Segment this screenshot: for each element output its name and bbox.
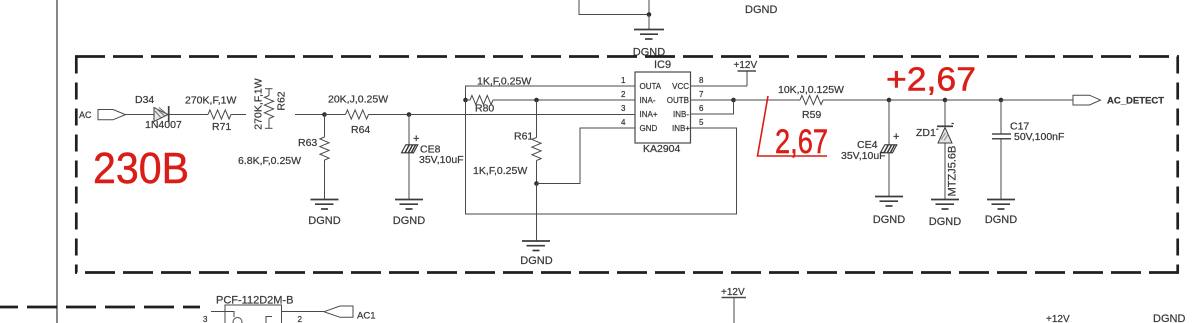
wire R59 to CE4 node — [823, 99, 889, 101]
sheet border vertical line — [56, 0, 58, 323]
ground DGND under C17 — [987, 200, 1015, 210]
svg-text:MTZJ5.6B: MTZJ5.6B — [947, 146, 959, 197]
wire CE4 node to ZD1 node — [889, 99, 945, 101]
svg-text:DGND: DGND — [985, 214, 1017, 226]
svg-text:R63: R63 — [298, 137, 317, 149]
relay contact fragment — [266, 317, 272, 323]
wire D34 to R71 — [169, 114, 208, 116]
svg-text:35V,10uF: 35V,10uF — [419, 154, 464, 166]
wire R71 to R62 area — [231, 114, 246, 116]
wire C17 node to AC_DETECT port — [1001, 99, 1073, 101]
svg-text:R80: R80 — [475, 103, 494, 115]
svg-text:230В: 230В — [93, 144, 189, 193]
svg-text:2: 2 — [621, 90, 626, 99]
svg-text:INB-: INB- — [673, 110, 689, 119]
wire R64 to CE8 node — [369, 114, 410, 116]
wire R62 area to node — [295, 114, 325, 116]
svg-text:DGND: DGND — [745, 4, 777, 16]
svg-text:INA-: INA- — [640, 96, 656, 105]
svg-text:270K,F,1W: 270K,F,1W — [185, 95, 236, 107]
svg-text:DGND: DGND — [929, 216, 961, 228]
svg-text:50V,100nF: 50V,100nF — [1014, 131, 1064, 143]
wire AC to D34 — [126, 114, 155, 116]
svg-text:+: + — [413, 133, 419, 145]
svg-text:7: 7 — [699, 90, 704, 99]
dashed box top border — [75, 55, 1179, 58]
svg-text:1K,F,0.25W: 1K,F,0.25W — [473, 165, 527, 177]
svg-text:+12V: +12V — [721, 287, 745, 298]
wire R80 to node B / pin2 — [493, 99, 635, 101]
node junction CE8 — [407, 112, 412, 117]
svg-text:DGND: DGND — [1153, 313, 1185, 323]
ground DGND under CE4 — [875, 197, 903, 207]
dashed box left border — [75, 57, 78, 273]
port AC1 connector symbol — [324, 306, 353, 317]
svg-text:R64: R64 — [351, 124, 370, 136]
svg-text:1N4007: 1N4007 — [145, 119, 182, 131]
wire node to CE8 — [408, 115, 410, 146]
wire node C to R59 — [734, 99, 801, 101]
wire pin7 OUTB to node C — [691, 99, 734, 101]
wire pin8 VCC to +12V — [691, 85, 748, 87]
node C junction — [731, 98, 736, 103]
red annotation callout line at R59 — [758, 96, 828, 156]
svg-text:+12V: +12V — [734, 60, 758, 71]
port AC connector symbol — [98, 110, 126, 120]
svg-text:GND: GND — [640, 124, 658, 133]
svg-text:DGND: DGND — [873, 214, 905, 226]
svg-text:D34: D34 — [135, 94, 154, 106]
svg-text:R59: R59 — [802, 109, 821, 121]
wire pin1 OUTA to node A — [466, 86, 636, 100]
svg-text:R62: R62 — [276, 91, 288, 110]
feedback loop wire node A to pin5 INB+ — [466, 100, 737, 214]
svg-text:AC_DETECT: AC_DETECT — [1107, 95, 1164, 106]
node junction CE4 — [887, 98, 892, 103]
svg-text:2: 2 — [298, 315, 303, 323]
node junction R61 bottom — [534, 181, 539, 186]
svg-text:AC1: AC1 — [357, 311, 375, 322]
wire pin4 GND jog to R61 bottom node — [537, 128, 636, 184]
node junction at top box — [647, 12, 652, 17]
svg-text:+: + — [893, 131, 899, 143]
svg-text:20K,J,0.25W: 20K,J,0.25W — [328, 94, 388, 106]
dashed box bottom border — [75, 271, 1179, 274]
node A junction — [463, 98, 468, 103]
svg-text:KA2904: KA2904 — [643, 143, 681, 155]
svg-text:1: 1 — [621, 76, 626, 85]
ground DGND under R63 — [311, 200, 339, 210]
svg-text:5: 5 — [699, 118, 704, 127]
svg-text:OUTA: OUTA — [640, 82, 662, 91]
lower dashed line (box below, cut off) — [0, 306, 200, 309]
wire R61 node to ground — [536, 184, 538, 241]
svg-text:INB+: INB+ — [672, 124, 690, 133]
svg-text:DGND: DGND — [393, 215, 425, 227]
wire from top box to ground — [648, 15, 650, 30]
wire node to CE4 — [888, 100, 890, 145]
svg-text:R71: R71 — [212, 121, 231, 133]
svg-text:6: 6 — [699, 104, 704, 113]
svg-text:3: 3 — [203, 315, 208, 323]
svg-text:35V,10uF: 35V,10uF — [841, 150, 886, 162]
svg-text:1K,F,0.25W: 1K,F,0.25W — [477, 76, 531, 88]
svg-text:VCC: VCC — [672, 82, 689, 91]
svg-text:4: 4 — [621, 118, 626, 127]
svg-text:2,67: 2,67 — [775, 123, 828, 161]
svg-text:8: 8 — [699, 76, 704, 85]
ground DGND under ZD1 — [931, 200, 959, 210]
svg-text:AC: AC — [79, 110, 92, 120]
svg-text:INA+: INA+ — [640, 110, 658, 119]
svg-text:DGND: DGND — [308, 215, 340, 227]
svg-text:IC9: IC9 — [654, 59, 671, 71]
node junction ZD1 — [943, 98, 948, 103]
ground DGND under CE8 — [395, 200, 423, 210]
node junction R63/R64 — [322, 112, 327, 117]
svg-text:270K,F,1W: 270K,F,1W — [253, 78, 265, 129]
svg-text:R61: R61 — [514, 131, 533, 143]
node B junction — [534, 98, 539, 103]
svg-text:ZD1: ZD1 — [916, 127, 936, 139]
ground DGND under R61 — [522, 241, 550, 251]
dashed box right border — [1176, 57, 1179, 273]
svg-text:DGND: DGND — [520, 255, 552, 267]
top partial box (circuit above, cut off) — [579, 0, 649, 15]
wire node C to pin6 INB- — [691, 100, 734, 114]
port AC_DETECT connector symbol — [1073, 95, 1101, 105]
wire node to IC pin3 (INA+) — [409, 114, 635, 116]
svg-text:OUTB: OUTB — [667, 96, 689, 105]
svg-text:+2,67: +2,67 — [886, 61, 976, 98]
wire ZD1 node to C17 node — [945, 99, 1001, 101]
ground DGND (top center) — [634, 30, 664, 40]
svg-text:+12V: +12V — [1046, 314, 1070, 323]
svg-text:6.8K,F,0.25W: 6.8K,F,0.25W — [238, 155, 301, 167]
svg-text:3: 3 — [621, 104, 626, 113]
svg-text:10K,J,0.125W: 10K,J,0.125W — [778, 84, 844, 96]
relay coil (cut off) — [233, 318, 242, 323]
node junction C17 — [999, 98, 1004, 103]
